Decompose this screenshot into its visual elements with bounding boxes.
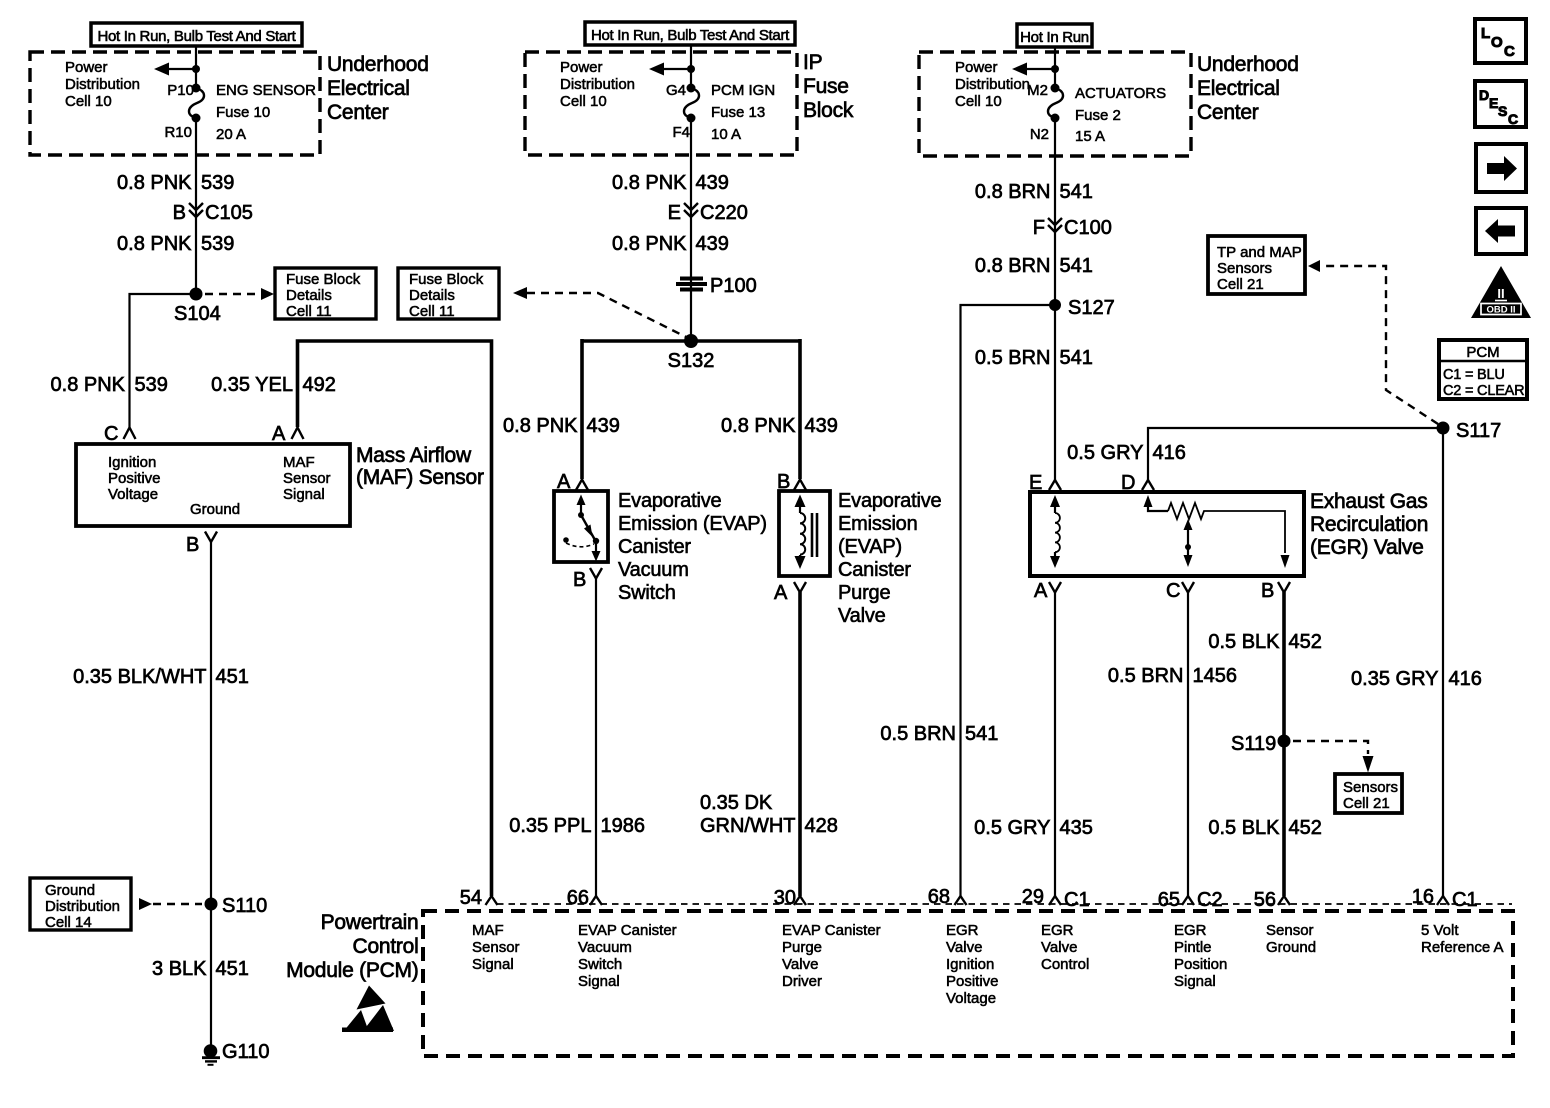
- svg-text:451: 451: [216, 958, 249, 980]
- svg-text:0.5 BRN: 0.5 BRN: [975, 347, 1051, 369]
- svg-text:EVAP Canister: EVAP Canister: [782, 922, 881, 939]
- svg-text:5 Volt: 5 Volt: [1421, 922, 1459, 939]
- wire: 0.8 PNK 439 from S132 down to EVAP switch pin A: [580, 339, 584, 479]
- wire: dashed reference S110 to Ground Distribution: [139, 898, 152, 910]
- svg-text:0.8 PNK: 0.8 PNK: [503, 415, 578, 437]
- svg-text:Ground: Ground: [1266, 939, 1316, 956]
- svg-text:0.5 GRY: 0.5 GRY: [1067, 442, 1143, 464]
- wire: dashed reference S104 to Fuse Block Details: [205, 293, 260, 295]
- svg-text:R10: R10: [164, 124, 192, 141]
- svg-text:0.8 PNK: 0.8 PNK: [612, 172, 687, 194]
- wire: 0.5 GRY 435 from EGR A down to PCM 29: [1054, 592, 1056, 896]
- svg-text:C2 = CLEAR: C2 = CLEAR: [1443, 383, 1524, 399]
- solenoid coil inside purge valve: [799, 504, 801, 513]
- pin 65 C2: [1182, 896, 1194, 905]
- pin M2: [1051, 84, 1060, 93]
- svg-text:Evaporative: Evaporative: [618, 490, 721, 512]
- wire: from title box down to fuse (mid): [690, 45, 692, 88]
- svg-text:541: 541: [965, 723, 998, 745]
- pin A of purge valve: [794, 582, 806, 593]
- splice S132: [684, 334, 698, 348]
- svg-text:F: F: [1033, 217, 1045, 239]
- svg-text:B: B: [173, 202, 186, 224]
- svg-text:Driver: Driver: [782, 973, 822, 990]
- wire: dashed reference S132 to Fuse Block Details: [513, 287, 527, 299]
- svg-text:0.8 PNK: 0.8 PNK: [51, 374, 126, 396]
- wire: 0.5 BLK 452 from EGR B down to PCM 56: [1282, 592, 1286, 896]
- svg-text:E: E: [668, 202, 681, 224]
- svg-text:EGR: EGR: [1174, 922, 1207, 939]
- svg-text:Fuse Block: Fuse Block: [286, 271, 361, 288]
- wire: 0.5 BRN 541 from S127 down to EGR pin E: [1054, 305, 1056, 480]
- svg-text:0.5 BRN: 0.5 BRN: [880, 723, 956, 745]
- svg-text:539: 539: [201, 233, 234, 255]
- svg-text:Recirculation: Recirculation: [1310, 513, 1428, 536]
- pin 68: [955, 896, 967, 905]
- splice S119: [1278, 735, 1291, 748]
- svg-text:Fuse: Fuse: [803, 75, 849, 98]
- svg-text:Voltage: Voltage: [946, 990, 996, 1007]
- svg-text:Power: Power: [65, 59, 108, 76]
- svg-text:GRN/WHT: GRN/WHT: [700, 815, 796, 837]
- svg-text:0.8 PNK: 0.8 PNK: [612, 233, 687, 255]
- wire: dashed reference S119 to Sensors Cell 21: [1293, 741, 1368, 754]
- svg-text:C1: C1: [1452, 889, 1478, 911]
- pin G4: [687, 84, 696, 93]
- connector C220 pin E: [684, 203, 698, 217]
- svg-text:Hot In Run, Bulb Test And Star: Hot In Run, Bulb Test And Start: [97, 28, 296, 45]
- svg-text:Ground: Ground: [45, 882, 95, 899]
- PCM connector dashed line: [497, 903, 1512, 905]
- svg-text:Cell 11: Cell 11: [286, 303, 332, 320]
- svg-text:439: 439: [696, 172, 729, 194]
- svg-text:0.35 DK: 0.35 DK: [700, 792, 773, 814]
- svg-text:Sensor: Sensor: [1266, 922, 1314, 939]
- wire: from title box down to fuse (right): [1054, 47, 1056, 88]
- svg-text:451: 451: [216, 666, 249, 688]
- svg-text:P100: P100: [710, 275, 757, 297]
- wire: 0.5 BRN 1456 from EGR C down to PCM 65: [1187, 592, 1189, 896]
- wire: from title box down to fuse (left): [195, 46, 197, 88]
- svg-text:C105: C105: [205, 202, 253, 224]
- pin 30: [794, 896, 806, 905]
- pin 29 C1: [1049, 896, 1061, 905]
- switch symbol inside vacuum switch: [580, 501, 582, 514]
- svg-text:68: 68: [928, 886, 950, 908]
- svg-text:428: 428: [805, 815, 838, 837]
- svg-text:Powertrain: Powertrain: [321, 911, 419, 934]
- EGR pintle position potentiometer: [1148, 504, 1168, 511]
- svg-text:0.8 PNK: 0.8 PNK: [721, 415, 796, 437]
- wire: 0.5 GRY 416 from S117 left and down to EGR pin D: [1148, 428, 1443, 480]
- wire: S127 branch left and down to PCM 68: [961, 305, 1056, 896]
- wire: MAF signal from pin A up and over to PCM 54: [298, 341, 492, 896]
- svg-text:29: 29: [1022, 886, 1044, 908]
- svg-text:Distribution: Distribution: [65, 76, 140, 93]
- svg-text:EVAP Canister: EVAP Canister: [578, 922, 677, 939]
- svg-text:539: 539: [201, 172, 234, 194]
- svg-text:Cell 10: Cell 10: [560, 93, 607, 110]
- EVAP canister vacuum switch box: [554, 491, 608, 562]
- svg-text:ENG SENSOR: ENG SENSOR: [216, 82, 316, 99]
- svg-text:Block: Block: [803, 99, 854, 122]
- svg-text:EGR: EGR: [946, 922, 979, 939]
- pin B of EVAP switch: [590, 568, 602, 579]
- svg-text:Power: Power: [955, 59, 998, 76]
- connector C105 pin B: [189, 203, 203, 217]
- svg-text:Power: Power: [560, 59, 603, 76]
- svg-text:0.8 PNK: 0.8 PNK: [117, 233, 192, 255]
- svg-text:L: L: [1481, 25, 1490, 42]
- svg-text:Sensor: Sensor: [472, 939, 520, 956]
- pin A of MAF: [292, 428, 304, 440]
- svg-text:Evaporative: Evaporative: [838, 490, 941, 512]
- svg-text:S119: S119: [1231, 733, 1276, 755]
- svg-text:3 BLK: 3 BLK: [152, 958, 207, 980]
- svg-text:439: 439: [805, 415, 838, 437]
- node: junction dot on feed (mid): [687, 65, 695, 73]
- pin P10: [192, 84, 201, 93]
- pin 66: [590, 896, 602, 905]
- EGR valve box: [1030, 492, 1304, 576]
- svg-text:OBD II: OBD II: [1486, 305, 1515, 316]
- svg-text:ACTUATORS: ACTUATORS: [1075, 85, 1166, 102]
- splice S117: [1437, 422, 1450, 435]
- svg-text:O: O: [1491, 34, 1503, 51]
- svg-text:Positive: Positive: [108, 470, 161, 487]
- svg-text:C: C: [104, 423, 118, 445]
- svg-text:Sensors: Sensors: [1217, 260, 1272, 277]
- svg-text:54: 54: [460, 887, 482, 909]
- wire: feed arrow to Power Distribution (mid): [663, 68, 691, 70]
- pin 54: [486, 896, 498, 905]
- wire: feed arrow to Power Distribution (left): [168, 68, 196, 70]
- title box: Hot In Run, Bulb Test And Start (mid): [585, 22, 795, 45]
- pin A of EGR: [1049, 582, 1061, 593]
- svg-text:N2: N2: [1030, 126, 1049, 143]
- icon: OBD II triangle: [1471, 266, 1531, 318]
- svg-text:0.5 BRN: 0.5 BRN: [1108, 665, 1184, 687]
- svg-text:Electrical: Electrical: [327, 77, 410, 100]
- svg-text:Distribution: Distribution: [955, 76, 1030, 93]
- box: Fuse Block Details Cell 11 (second): [398, 268, 499, 319]
- svg-text:Control: Control: [353, 935, 419, 958]
- svg-text:F4: F4: [672, 124, 690, 141]
- dashed box: IP Fuse Block: [525, 52, 797, 155]
- svg-text:E: E: [1489, 95, 1498, 111]
- connector C100 pin F: [1048, 218, 1062, 232]
- svg-text:Signal: Signal: [578, 973, 620, 990]
- svg-text:0.8 BRN: 0.8 BRN: [975, 181, 1051, 203]
- svg-text:S117: S117: [1456, 420, 1501, 442]
- svg-text:Ignition: Ignition: [946, 956, 994, 973]
- svg-text:C2: C2: [1197, 889, 1223, 911]
- ESD symbol: [357, 986, 386, 1010]
- svg-text:Signal: Signal: [472, 956, 514, 973]
- svg-text:Reference A: Reference A: [1421, 939, 1504, 956]
- svg-text:Cell 21: Cell 21: [1217, 276, 1264, 293]
- svg-text:0.5 BLK: 0.5 BLK: [1208, 631, 1280, 653]
- svg-text:Valve: Valve: [782, 956, 818, 973]
- svg-text:Cell 21: Cell 21: [1343, 795, 1390, 812]
- solenoid core lines: [811, 513, 814, 557]
- pin B of MAF: [205, 532, 217, 543]
- svg-text:65: 65: [1158, 889, 1180, 911]
- svg-text:Position: Position: [1174, 956, 1227, 973]
- fuse ACTUATORS Fuse 2 15 A: [1048, 88, 1063, 118]
- pin C of EGR: [1182, 582, 1194, 593]
- fuse ENG SENSOR Fuse 10 20 A: [189, 88, 204, 118]
- svg-text:Mass Airflow: Mass Airflow: [356, 444, 472, 467]
- wire: S104 branch left and down to MAF pin C: [130, 294, 197, 427]
- node: junction dot on feed (right): [1051, 65, 1059, 73]
- svg-text:Cell 10: Cell 10: [955, 93, 1002, 110]
- svg-text:G110: G110: [222, 1041, 269, 1063]
- svg-text:Vacuum: Vacuum: [618, 559, 689, 581]
- svg-text:452: 452: [1289, 817, 1322, 839]
- svg-text:0.35 GRY: 0.35 GRY: [1351, 668, 1438, 690]
- svg-text:S: S: [1498, 103, 1507, 119]
- svg-text:Vacuum: Vacuum: [578, 939, 632, 956]
- svg-text:B: B: [573, 569, 586, 591]
- svg-text:0.8 BRN: 0.8 BRN: [975, 255, 1051, 277]
- svg-text:Hot In Run: Hot In Run: [1020, 29, 1089, 46]
- svg-text:C: C: [1166, 580, 1180, 602]
- svg-text:Center: Center: [327, 101, 389, 124]
- svg-text:P10: P10: [167, 82, 194, 99]
- svg-text:Canister: Canister: [838, 559, 911, 581]
- icon: back arrow box: [1476, 208, 1526, 254]
- svg-text:Voltage: Voltage: [108, 486, 158, 503]
- svg-text:Fuse 13: Fuse 13: [711, 104, 765, 121]
- svg-text:Canister: Canister: [618, 536, 691, 558]
- wire: 0.35 PPL 1986 from switch pin B down to PCM 66: [595, 578, 597, 896]
- box: Ground Distribution Cell 14: [30, 878, 131, 930]
- svg-text:Fuse 10: Fuse 10: [216, 104, 270, 121]
- svg-text:M2: M2: [1027, 82, 1048, 99]
- svg-text:10 A: 10 A: [711, 126, 741, 143]
- ground G110: [204, 1044, 218, 1058]
- pin C of MAF: [124, 428, 136, 440]
- svg-text:Underhood: Underhood: [327, 53, 429, 76]
- box: Fuse Block Details Cell 11 (first): [275, 268, 376, 319]
- grommet P100: [680, 277, 703, 281]
- svg-text:C220: C220: [700, 202, 748, 224]
- svg-text:A: A: [774, 582, 788, 604]
- svg-text:S127: S127: [1068, 297, 1115, 319]
- svg-text:EGR: EGR: [1041, 922, 1074, 939]
- svg-text:416: 416: [1153, 442, 1186, 464]
- svg-text:Emission (EVAP): Emission (EVAP): [618, 513, 767, 535]
- svg-text:Signal: Signal: [1174, 973, 1216, 990]
- legend box: PCM connectors: [1439, 340, 1527, 399]
- svg-text:0.5 GRY: 0.5 GRY: [974, 817, 1050, 839]
- svg-text:Hot In Run, Bulb Test And Star: Hot In Run, Bulb Test And Start: [591, 27, 790, 44]
- svg-text:1456: 1456: [1193, 665, 1238, 687]
- svg-text:66: 66: [567, 887, 589, 909]
- svg-text:D: D: [1479, 87, 1489, 103]
- svg-text:IP: IP: [803, 51, 822, 74]
- svg-text:A: A: [1034, 580, 1048, 602]
- svg-text:Distribution: Distribution: [45, 898, 120, 915]
- pin D of EGR: [1142, 480, 1154, 490]
- svg-text:MAF: MAF: [283, 454, 315, 471]
- svg-text:C100: C100: [1064, 217, 1112, 239]
- wire: 0.8 PNK 439 from fuse down to S132: [690, 118, 692, 341]
- title box: Hot In Run, Bulb Test And Start (left): [91, 23, 302, 46]
- svg-text:(EGR) Valve: (EGR) Valve: [1310, 536, 1424, 559]
- svg-text:C: C: [1504, 43, 1515, 60]
- svg-text:439: 439: [587, 415, 620, 437]
- svg-text:Signal: Signal: [283, 486, 325, 503]
- EGR solenoid coil: [1054, 505, 1056, 513]
- svg-text:S132: S132: [668, 350, 715, 372]
- svg-text:B: B: [186, 534, 199, 556]
- svg-text:Switch: Switch: [618, 582, 676, 604]
- svg-text:435: 435: [1060, 817, 1093, 839]
- svg-text:539: 539: [135, 374, 168, 396]
- svg-text:0.35 YEL: 0.35 YEL: [211, 374, 293, 396]
- svg-text:C1 = BLU: C1 = BLU: [1443, 367, 1505, 383]
- svg-text:Valve: Valve: [1041, 939, 1077, 956]
- svg-text:16: 16: [1412, 886, 1434, 908]
- svg-text:G4: G4: [666, 82, 686, 99]
- svg-text:Control: Control: [1041, 956, 1089, 973]
- splice S127: [1049, 299, 1061, 311]
- svg-text:Pintle: Pintle: [1174, 939, 1212, 956]
- svg-text:Valve: Valve: [838, 605, 886, 627]
- svg-text:Center: Center: [1197, 101, 1259, 124]
- wire: 0.35 GRY 416 from S117 down to PCM 16: [1442, 428, 1444, 896]
- MAF sensor box: [76, 444, 350, 526]
- pin B of purge valve: [794, 480, 806, 491]
- icon: LOC box: [1475, 19, 1526, 63]
- svg-text:Valve: Valve: [946, 939, 982, 956]
- svg-text:(MAF) Sensor: (MAF) Sensor: [356, 466, 484, 489]
- dashed box: Underhood Electrical Center (right): [919, 52, 1191, 156]
- svg-text:492: 492: [303, 374, 336, 396]
- wire: 0.8 PNK 439 from S132 down to purge valve pin B: [798, 339, 802, 479]
- pin 56: [1278, 896, 1290, 905]
- svg-text:30: 30: [774, 887, 796, 909]
- PCM box (dashed): [423, 911, 1513, 1056]
- svg-text:0.5 BLK: 0.5 BLK: [1208, 817, 1280, 839]
- fuse PCM IGN Fuse 13 10 A: [684, 88, 699, 118]
- svg-text:416: 416: [1449, 668, 1482, 690]
- svg-text:II: II: [1497, 286, 1504, 301]
- svg-text:Details: Details: [286, 287, 332, 304]
- svg-text:C: C: [1508, 111, 1518, 127]
- wire: MAF ground 0.35 BLK/WHT 451 down to S110: [210, 542, 212, 1046]
- svg-text:Electrical: Electrical: [1197, 77, 1280, 100]
- svg-text:Sensors: Sensors: [1343, 779, 1398, 796]
- wire: 0.35 DK GRN/WHT 428 from purge valve pin A down to PCM 30: [798, 592, 802, 896]
- title box: Hot In Run: [1017, 24, 1092, 47]
- pin E of EGR: [1049, 480, 1061, 490]
- svg-text:C1: C1: [1064, 889, 1090, 911]
- svg-text:541: 541: [1060, 255, 1093, 277]
- box: Sensors Cell 21: [1335, 774, 1402, 813]
- svg-text:Sensor: Sensor: [283, 470, 331, 487]
- svg-text:MAF: MAF: [472, 922, 504, 939]
- svg-text:PCM: PCM: [1466, 344, 1499, 361]
- svg-text:56: 56: [1254, 889, 1276, 911]
- svg-text:1986: 1986: [601, 815, 646, 837]
- svg-text:(EVAP): (EVAP): [838, 536, 902, 558]
- pin B of EGR: [1278, 582, 1290, 593]
- EVAP canister purge valve box: [779, 491, 830, 576]
- dashed box: Underhood Electrical Center (left): [30, 52, 320, 155]
- svg-text:Cell 10: Cell 10: [65, 93, 112, 110]
- svg-text:0.35 PPL: 0.35 PPL: [509, 815, 591, 837]
- box: TP and MAP Sensors Cell 21: [1208, 236, 1305, 294]
- svg-text:Distribution: Distribution: [560, 76, 635, 93]
- svg-text:541: 541: [1060, 347, 1093, 369]
- splice S104: [190, 288, 203, 301]
- svg-text:Ground: Ground: [190, 501, 240, 518]
- svg-text:Module (PCM): Module (PCM): [286, 959, 418, 982]
- wire: dashed reference S117 to TP and MAP Sensors: [1321, 266, 1438, 424]
- pin A of EVAP switch: [576, 480, 588, 491]
- svg-text:Purge: Purge: [782, 939, 822, 956]
- svg-text:Cell 11: Cell 11: [409, 303, 455, 320]
- svg-text:A: A: [272, 423, 286, 445]
- svg-text:0.8 PNK: 0.8 PNK: [117, 172, 192, 194]
- svg-text:Details: Details: [409, 287, 455, 304]
- svg-text:Purge: Purge: [838, 582, 890, 604]
- svg-text:541: 541: [1060, 181, 1093, 203]
- svg-text:20 A: 20 A: [216, 126, 246, 143]
- svg-text:Ignition: Ignition: [108, 454, 156, 471]
- wire: 0.8 BRN 541 from fuse down to S127: [1054, 118, 1056, 305]
- svg-text:Cell 14: Cell 14: [45, 914, 92, 931]
- svg-text:B: B: [1261, 580, 1274, 602]
- svg-text:S104: S104: [174, 303, 221, 325]
- wire: S132 bus bar: [582, 339, 800, 343]
- node: junction dot on feed (left): [192, 65, 200, 73]
- svg-text:Positive: Positive: [946, 973, 999, 990]
- svg-text:TP and MAP: TP and MAP: [1217, 244, 1302, 261]
- svg-text:Exhaust Gas: Exhaust Gas: [1310, 490, 1427, 513]
- svg-text:0.35 BLK/WHT: 0.35 BLK/WHT: [73, 666, 206, 688]
- svg-text:Fuse Block: Fuse Block: [409, 271, 484, 288]
- icon: DESC box: [1475, 81, 1526, 127]
- svg-text:PCM IGN: PCM IGN: [711, 82, 775, 99]
- wire: 0.8 PNK 539 from fuse R10 down to S104: [195, 118, 197, 294]
- EGR potentiometer wiper: [1187, 527, 1189, 556]
- svg-text:452: 452: [1289, 631, 1322, 653]
- svg-text:S110: S110: [222, 895, 267, 917]
- icon: forward arrow box: [1476, 144, 1526, 192]
- svg-text:439: 439: [696, 233, 729, 255]
- wire: feed arrow to Power Distribution (right): [1026, 68, 1055, 70]
- pin 16 C1: [1437, 896, 1449, 905]
- svg-text:Underhood: Underhood: [1197, 53, 1299, 76]
- svg-text:15 A: 15 A: [1075, 128, 1105, 145]
- svg-text:Switch: Switch: [578, 956, 622, 973]
- svg-text:Emission: Emission: [838, 513, 918, 535]
- splice S110: [205, 898, 218, 911]
- svg-text:Fuse 2: Fuse 2: [1075, 107, 1121, 124]
